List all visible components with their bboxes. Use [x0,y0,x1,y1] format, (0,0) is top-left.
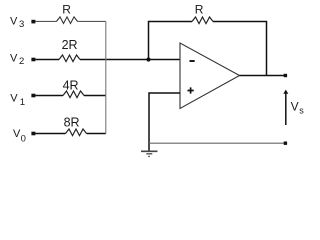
svg-text:0: 0 [21,133,26,144]
svg-text:3: 3 [19,19,24,30]
svg-text:2R: 2R [62,38,78,52]
svg-text:V: V [10,93,18,105]
svg-text:V: V [10,15,18,27]
svg-text:2: 2 [19,56,24,67]
svg-text:s: s [299,105,304,115]
svg-text:8R: 8R [64,116,80,130]
svg-text:V: V [291,100,299,114]
svg-text:V: V [10,52,18,64]
svg-text:R: R [195,3,204,17]
svg-text:R: R [62,3,71,17]
svg-text:4R: 4R [63,79,79,93]
svg-text:1: 1 [20,97,25,108]
